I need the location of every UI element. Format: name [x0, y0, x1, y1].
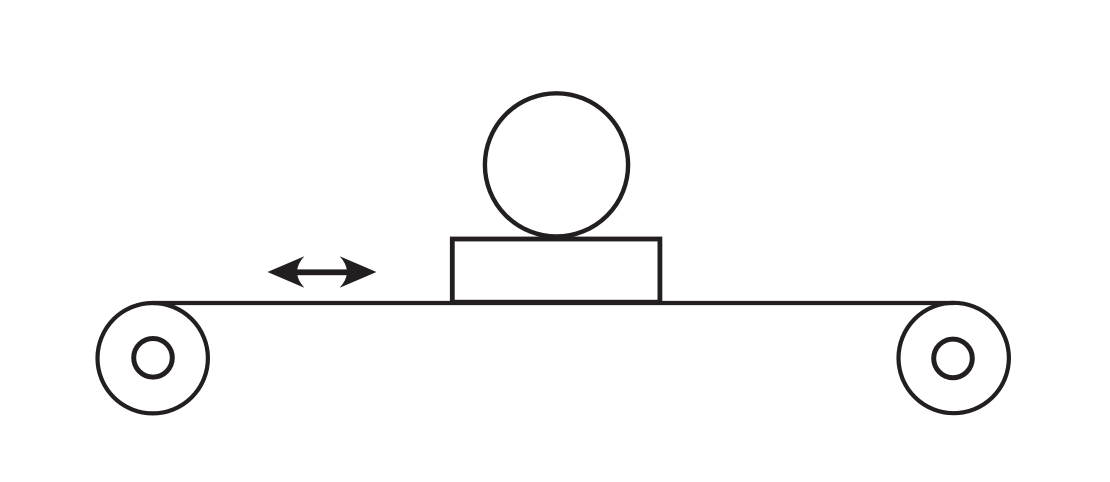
top roller circle resting on pad — [485, 93, 628, 236]
left roller outer circle — [98, 303, 208, 413]
right roller inner hub circle — [934, 339, 973, 378]
wire: horizontal web line between rollers — [153, 301, 954, 305]
left roller inner hub circle — [134, 339, 173, 378]
double-headed arrow indicating lateral movement — [268, 256, 377, 287]
rectangle pad on web — [452, 239, 660, 302]
right roller outer circle — [899, 303, 1009, 413]
